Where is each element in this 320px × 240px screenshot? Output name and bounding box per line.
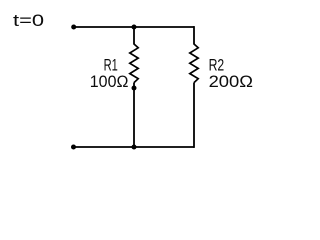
node bottom junction: [132, 145, 137, 150]
wire R2 branch upper: [193, 26, 195, 44]
wire R1 branch upper: [133, 27, 135, 45]
resistor R2: [190, 44, 198, 83]
node top-left terminal: [71, 25, 76, 30]
svg-text:R1: R1: [104, 57, 118, 75]
resistor R1: [130, 44, 138, 83]
svg-text:R2: R2: [209, 57, 225, 75]
wire R1 branch lower: [133, 83, 135, 147]
svg-text:t=0: t=0: [13, 12, 44, 30]
node top junction: [132, 25, 137, 30]
node R1 bottom: [132, 86, 137, 91]
wire bottom rail: [74, 146, 195, 148]
wire top rail: [74, 26, 194, 28]
wire R2 branch lower: [193, 83, 195, 148]
node bottom-left terminal: [71, 145, 76, 150]
svg-text:100Ω: 100Ω: [90, 73, 129, 91]
svg-text:200Ω: 200Ω: [209, 73, 253, 91]
